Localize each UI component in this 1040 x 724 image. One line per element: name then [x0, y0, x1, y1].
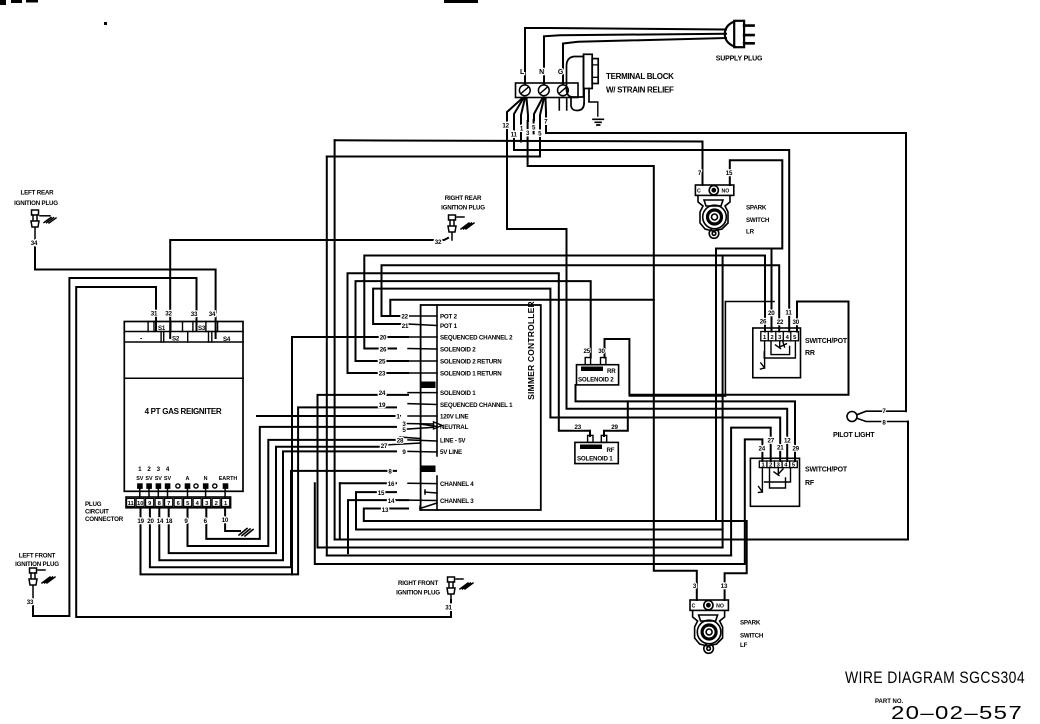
- wire 21 loop L5: pin21 to RF cell3 via y417.5: [373, 289, 780, 461]
- svg-text:NO: NO: [716, 604, 724, 610]
- svg-text:SWITCH: SWITCH: [740, 633, 764, 640]
- svg-text:EARTH: EARTH: [219, 476, 238, 482]
- svg-text:14: 14: [388, 498, 395, 505]
- svg-text:S1: S1: [158, 325, 166, 332]
- wire 29 bracket solenoid1: [604, 401, 628, 436]
- svg-text:SOLENOID 1 RETURN: SOLENOID 1 RETURN: [440, 371, 502, 378]
- wire 12 long: down, jog right, down, to RF cell4: [507, 118, 787, 461]
- svg-text:8: 8: [388, 469, 392, 476]
- labels controller pin names: [440, 314, 513, 506]
- wires reigniter pins to connector: [140, 488, 225, 497]
- labels switch/pot RR wires: [760, 310, 800, 327]
- wire 15 long vertical x716.9 from spark switch LR loop to line1: [715, 249, 717, 522]
- wire 13 line1: pin13 to spark switch LF NO: [364, 509, 747, 601]
- svg-text:22: 22: [401, 314, 408, 321]
- svg-text:15: 15: [378, 490, 385, 497]
- svg-text:SOLENOID 2: SOLENOID 2: [440, 347, 476, 354]
- switch/pot RF pot symbol: [759, 468, 791, 493]
- svg-text:CIRCUIT: CIRCUIT: [85, 509, 109, 516]
- svg-text:30: 30: [598, 348, 605, 355]
- wire 32 from right rear ignition plug to terminal 32: [170, 238, 448, 338]
- switch/pot RF connector: [750, 458, 799, 506]
- wire 23 loop L3: pin23 to solenoid1 bracket: [348, 273, 591, 431]
- labels reigniter bottom pins: [138, 466, 170, 473]
- svg-text:30: 30: [793, 319, 800, 326]
- svg-text:20: 20: [380, 335, 387, 342]
- svg-text:20–02–557: 20–02–557: [891, 703, 1023, 723]
- svg-text:21: 21: [777, 445, 784, 452]
- supply plug body: [734, 21, 744, 47]
- wire pin20 long drop: [292, 337, 408, 574]
- svg-text:RIGHT FRONT: RIGHT FRONT: [398, 580, 438, 587]
- wire 20 loop F: cell9 to pin8 row: [150, 471, 396, 567]
- svg-text:5: 5: [538, 131, 542, 138]
- wire 24 line4: pin24 to RF cell1: [318, 395, 723, 548]
- svg-text:POT 1: POT 1: [440, 323, 458, 330]
- wire 34 from left rear ignition plug to terminal 34: [35, 240, 216, 338]
- plug circuit connector strip: [126, 497, 231, 508]
- svg-text:LR: LR: [746, 229, 755, 236]
- svg-text:18: 18: [166, 518, 173, 525]
- svg-text:26: 26: [380, 347, 387, 354]
- wire N supply cord: [544, 34, 726, 84]
- svg-text:26: 26: [760, 319, 767, 326]
- labels switch/pot RF cells: [761, 462, 795, 468]
- svg-text:PILOT LIGHT: PILOT LIGHT: [833, 432, 875, 439]
- svg-text:31: 31: [151, 311, 158, 318]
- wire fan from terminal N: [534, 98, 543, 120]
- wire 3 via y166 to x654.8 long vertical: [528, 121, 697, 600]
- svg-text:34: 34: [209, 311, 216, 318]
- strain relief clamp: [559, 54, 598, 110]
- svg-text:IGNITION PLUG: IGNITION PLUG: [14, 200, 58, 207]
- wire 16 line3: to pilot light 8: [335, 422, 908, 540]
- svg-text:SWITCH: SWITCH: [746, 217, 770, 224]
- reigniter bottom pins: [138, 484, 228, 488]
- svg-text:SV: SV: [155, 476, 163, 482]
- wire net y141.5 horizontal to spark switch LR C: [335, 121, 703, 185]
- controller pin ticks: [385, 316, 442, 510]
- left front ignition plug: [29, 568, 55, 600]
- svg-text:33: 33: [27, 599, 34, 606]
- wire left vertical x334.6 from y140 to line3: [334, 140, 336, 539]
- right front ignition plug: [447, 577, 473, 600]
- svg-text:G: G: [558, 69, 564, 76]
- svg-text:RR: RR: [805, 350, 815, 357]
- wire 14 loop E: cell8 to pin9 row: [159, 451, 396, 560]
- scan marks: [0, 0, 478, 25]
- svg-text:120V LINE: 120V LINE: [440, 414, 469, 421]
- svg-text:N: N: [539, 69, 544, 76]
- spark switch LF: [690, 600, 728, 653]
- reigniter terminal row 2: [124, 341, 243, 343]
- wire line5: to spark switch LF C bracket: [327, 555, 731, 557]
- svg-text:12: 12: [784, 438, 791, 445]
- svg-text:WIRE DIAGRAM SGCS304: WIRE DIAGRAM SGCS304: [845, 668, 1025, 687]
- wire 11 y150 horizontal to switch/pot RR cell4: [514, 120, 789, 332]
- svg-text:19: 19: [379, 402, 386, 409]
- svg-text:25: 25: [584, 348, 591, 355]
- svg-text:22: 22: [777, 319, 784, 326]
- svg-text:8: 8: [882, 420, 886, 427]
- svg-text:31: 31: [445, 605, 452, 612]
- svg-text:W/ STRAIN RELIEF: W/ STRAIN RELIEF: [606, 86, 674, 95]
- wire 30 from solenoid2 to RR cell5 via big box: [605, 302, 849, 395]
- svg-text:21: 21: [402, 323, 409, 330]
- svg-text:24: 24: [379, 390, 386, 397]
- svg-text:3: 3: [157, 466, 161, 473]
- svg-text:32: 32: [165, 311, 172, 318]
- wire 33 from left front ignition plug to terminal 33: [33, 278, 197, 616]
- svg-text:SPARK: SPARK: [740, 620, 761, 627]
- 4 PT gas reigniter box: [124, 322, 243, 492]
- wire 20 drop to RR cell2: [771, 249, 773, 332]
- svg-text:SEQUENCED CHANNEL 2: SEQUENCED CHANNEL 2: [440, 335, 513, 342]
- wire 9 loop C: cell5 to pin28 row: [188, 440, 397, 546]
- svg-text:9: 9: [402, 449, 406, 456]
- svg-text:3: 3: [778, 335, 782, 341]
- terminal block body: [516, 83, 579, 98]
- lower bundle lines: [315, 160, 908, 600]
- svg-text:19: 19: [137, 518, 144, 525]
- svg-text:2: 2: [769, 462, 772, 468]
- wire v2 vertical x722.6: [722, 256, 724, 547]
- svg-text:SPARK: SPARK: [746, 205, 767, 212]
- svg-text:TERMINAL BLOCK: TERMINAL BLOCK: [606, 72, 674, 81]
- wire 29 line y401.4 to RF cell5: [576, 385, 796, 461]
- wire 24 bracket to RF cell1: [745, 439, 763, 564]
- switch/pot RR pot symbol: [761, 341, 796, 370]
- wire fan from terminal L: [507, 98, 523, 118]
- svg-text:RF: RF: [805, 480, 815, 487]
- wire G supply cord: [563, 38, 726, 84]
- svg-text:2: 2: [770, 335, 773, 341]
- terminal screw G: [558, 85, 569, 96]
- svg-text:SWITCH/POT: SWITCH/POT: [805, 467, 848, 474]
- wire 16 drop: [339, 483, 341, 539]
- controller pin block bars: [422, 382, 436, 389]
- svg-text:5: 5: [402, 427, 406, 434]
- switch/pot RR big box: [725, 302, 848, 397]
- svg-text:27: 27: [381, 443, 388, 450]
- svg-text:RIGHT REAR: RIGHT REAR: [445, 195, 482, 202]
- ground symbol at strain relief: [589, 102, 598, 116]
- svg-text:S4: S4: [223, 336, 231, 343]
- svg-text:34: 34: [31, 240, 38, 247]
- upper loops L1-L6: [348, 121, 781, 600]
- svg-text:IGNITION PLUG: IGNITION PLUG: [15, 561, 59, 568]
- svg-text:LF: LF: [740, 642, 748, 649]
- svg-text:32: 32: [435, 239, 442, 246]
- labels controller pin numbers: [378, 314, 409, 515]
- svg-text:2: 2: [215, 501, 218, 507]
- reigniter terminal row 1: [124, 331, 243, 333]
- switch/pot RR connector: [753, 328, 801, 378]
- svg-text:15: 15: [726, 170, 733, 177]
- wire 15 line2: pin15 to RF cell2: [356, 492, 723, 529]
- wire 22 loop L2: pin22 to RR cell3: [382, 265, 780, 331]
- svg-text:SOLENOID 2: SOLENOID 2: [578, 377, 614, 384]
- svg-text:12: 12: [502, 123, 509, 130]
- svg-text:11: 11: [511, 132, 518, 139]
- svg-text:13: 13: [382, 507, 389, 514]
- svg-text:29: 29: [611, 424, 618, 431]
- labels connector cells: [128, 501, 228, 507]
- wire 16 line6: pin16 to RF box bottom: [315, 483, 745, 564]
- svg-text:LEFT REAR: LEFT REAR: [21, 190, 55, 197]
- wire 31 from right front ignition plug to terminal 31: [76, 287, 451, 617]
- right rear ignition plug: [448, 215, 474, 240]
- svg-text:10: 10: [222, 517, 229, 524]
- wire loop L6 to spark switch LF C: [390, 300, 654, 316]
- svg-text:A: A: [185, 476, 189, 482]
- labels reigniter terminals: [151, 311, 216, 319]
- wire L supply cord: [525, 28, 726, 84]
- wire 23 bracket solenoid1 drop: [589, 431, 591, 436]
- wire y156.5 horizontal: [327, 121, 540, 157]
- svg-text:SEQUENCED CHANNEL 1: SEQUENCED CHANNEL 1: [440, 402, 513, 409]
- RF solenoid 1 box: [575, 442, 618, 463]
- svg-text:PLUG: PLUG: [85, 501, 102, 508]
- svg-text:SOLENOID 1: SOLENOID 1: [577, 456, 613, 463]
- svg-text:20: 20: [147, 518, 154, 525]
- svg-text:C: C: [692, 604, 696, 610]
- pilot light: [847, 412, 857, 422]
- svg-text:29: 29: [792, 446, 799, 453]
- RR solenoid 2 box: [577, 365, 619, 385]
- svg-text:4 PT GAS REIGNITER: 4 PT GAS REIGNITER: [145, 407, 222, 416]
- svg-text:5: 5: [532, 125, 536, 132]
- wire 10 earth from cell1: [225, 508, 240, 532]
- svg-text:CHANNEL 3: CHANNEL 3: [440, 498, 474, 505]
- svg-text:24: 24: [759, 446, 766, 453]
- svg-text:1: 1: [520, 126, 524, 133]
- svg-text:SV: SV: [164, 476, 172, 482]
- wire 25 loop L4: pin25 to solenoid2 pin: [356, 281, 591, 361]
- svg-text:RF: RF: [607, 447, 615, 454]
- svg-text:LEFT FRONT: LEFT FRONT: [19, 553, 56, 560]
- supply plug prongs: [744, 26, 754, 44]
- svg-text:NO: NO: [722, 189, 730, 195]
- svg-text:25: 25: [379, 359, 386, 366]
- svg-text:SOLENOID 2 RETURN: SOLENOID 2 RETURN: [440, 359, 502, 366]
- wire 27 bracket to RF cell2: [731, 428, 771, 556]
- wire pin14 left: [348, 500, 408, 553]
- WIRES-TOP: [327, 28, 906, 556]
- svg-text:CONNECTOR: CONNECTOR: [85, 516, 124, 523]
- svg-text:4: 4: [166, 466, 170, 473]
- svg-text:SIMMER CONTROLLER: SIMMER CONTROLLER: [526, 301, 536, 400]
- wire 26 loop L1: pin26 to RR cell1: [364, 256, 765, 349]
- spark switch LR: [695, 185, 733, 238]
- svg-text:11: 11: [128, 501, 135, 507]
- wire 18 loop D: cell7 to pin27 row: [169, 447, 385, 553]
- svg-text:SV: SV: [136, 476, 144, 482]
- svg-text:11: 11: [785, 310, 792, 317]
- labels switch/pot RR cells: [763, 335, 797, 341]
- svg-text:NEUTRAL: NEUTRAL: [440, 424, 469, 431]
- wire 15 loop at spark switch LR: [717, 160, 782, 248]
- simmer controller box: [421, 305, 541, 510]
- svg-text:SUPPLY PLUG: SUPPLY PLUG: [716, 56, 763, 63]
- svg-text:SOLENOID 1: SOLENOID 1: [440, 390, 476, 397]
- wire 19 loop G: cell10 to pin19 row: [141, 407, 397, 574]
- svg-text:16: 16: [388, 481, 395, 488]
- svg-text:13: 13: [721, 583, 728, 590]
- svg-text:20: 20: [768, 310, 775, 317]
- reigniter inner line: [124, 377, 243, 379]
- wire left vertical x326.8 from y156 to line5: [326, 157, 328, 556]
- svg-text:2: 2: [147, 466, 151, 473]
- svg-text:IGNITION PLUG: IGNITION PLUG: [396, 590, 440, 597]
- svg-text:POT 2: POT 2: [440, 314, 458, 321]
- labels terminal fan: [502, 119, 548, 139]
- svg-text:1: 1: [763, 335, 767, 341]
- svg-text:7: 7: [167, 501, 170, 507]
- svg-text:S2: S2: [172, 336, 180, 343]
- svg-text:3: 3: [526, 130, 530, 137]
- svg-text:28: 28: [397, 438, 404, 445]
- wire 5 stub: [533, 120, 535, 133]
- ground symbol at connector earth wire: [239, 529, 253, 537]
- svg-text:5: 5: [793, 335, 797, 341]
- svg-text:1: 1: [138, 466, 142, 473]
- wire 6 loop B: cell3 to pin5 row: [206, 427, 396, 539]
- svg-text:C: C: [697, 189, 701, 195]
- terminal screw N: [538, 85, 549, 96]
- svg-text:SWITCH/POT: SWITCH/POT: [805, 338, 848, 345]
- svg-text:7: 7: [698, 170, 702, 177]
- svg-text:IGNITION PLUG: IGNITION PLUG: [441, 205, 485, 212]
- svg-text:23: 23: [574, 424, 581, 431]
- svg-text:S3: S3: [198, 325, 206, 332]
- svg-text:10: 10: [137, 501, 143, 507]
- labels switch/pot RF wires: [759, 438, 800, 453]
- svg-text:33: 33: [191, 311, 198, 318]
- svg-text:23: 23: [379, 371, 386, 378]
- svg-text:7: 7: [544, 119, 548, 126]
- wire 7 to pilot: y133 horizontal: [546, 116, 906, 411]
- svg-text:SV: SV: [145, 476, 153, 482]
- svg-text:N: N: [204, 476, 208, 482]
- svg-text:CHANNEL 4: CHANNEL 4: [440, 481, 474, 488]
- svg-text:LINE - 5V: LINE - 5V: [440, 438, 466, 445]
- svg-text:4: 4: [786, 335, 790, 341]
- wire pin1 left: [257, 415, 400, 417]
- terminal screw L: [519, 85, 530, 96]
- left rear ignition plug: [31, 210, 56, 240]
- labels connector wires: [137, 517, 229, 525]
- svg-text:RR: RR: [607, 368, 616, 375]
- svg-text:5V LINE: 5V LINE: [440, 449, 462, 456]
- svg-text:14: 14: [157, 518, 164, 525]
- svg-text:27: 27: [767, 438, 774, 445]
- left side loops from plug connector: [33, 238, 451, 617]
